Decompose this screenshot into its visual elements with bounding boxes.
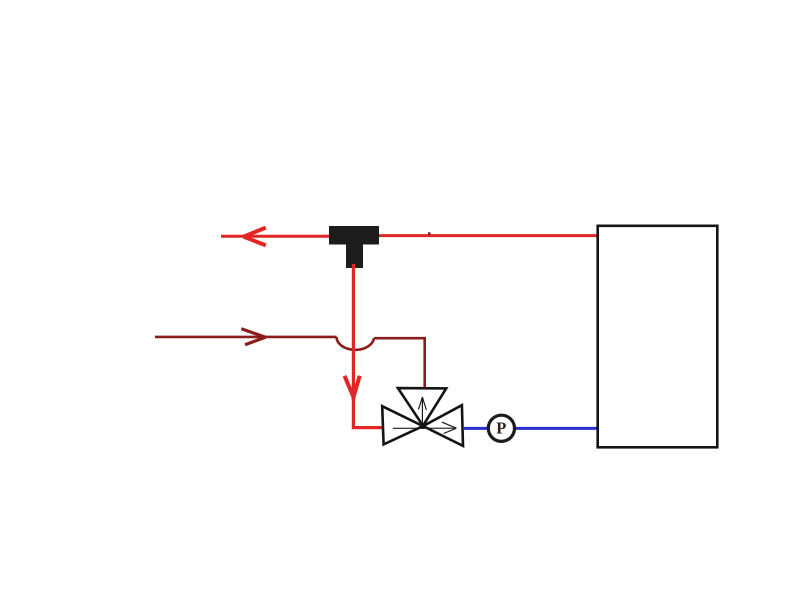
valve V1 center plug dot [420, 423, 426, 429]
arrow down (flow arrow on riser) [345, 376, 360, 400]
svg-text:P: P [496, 419, 506, 438]
valve V1 left triangle [382, 406, 423, 444]
arrow left (flow arrow on supply pipe) [244, 228, 266, 246]
valve V1 internal flow line horizontal [393, 427, 457, 429]
wire supply-left (red pipe from arrow to tee) [221, 235, 330, 238]
wire riser (red vertical pipe from tee down to valve inlet) [353, 264, 382, 428]
wire supply-right (red pipe from tee to boiler) [378, 234, 597, 237]
valve V1 internal arrow right barbs [442, 422, 457, 433]
valve V1 right triangle [423, 405, 463, 446]
tee fitting T1 (black tee on supply pipe) [329, 226, 379, 268]
valve V1 internal arrow up barbs [418, 397, 426, 410]
wire return-right (dark red pipe from bridge to valve top port) [374, 338, 425, 388]
wire return-left (dark red pipe from left edge to bridge) [155, 336, 337, 339]
bridge (return pipe hops under the riser) [337, 337, 375, 350]
boiler B1 (rectangle) [598, 226, 718, 447]
valve V1 internal flow line vertical [421, 397, 423, 426]
valve V1 top triangle (three-way mixing valve, top port) [398, 388, 446, 426]
node speck on supply pipe [428, 232, 431, 235]
wire pump-suction (blue pipe from valve to boiler) [464, 427, 597, 430]
pump P1 body circle [488, 415, 514, 441]
arrow right (flow arrow on return pipe) [241, 329, 265, 345]
